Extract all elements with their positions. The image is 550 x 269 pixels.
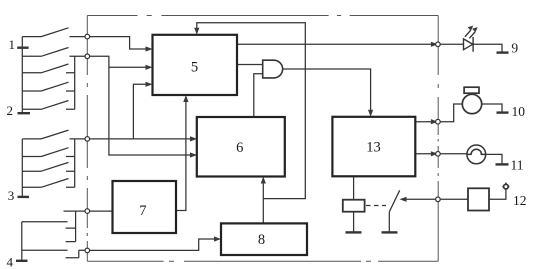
bell HB (circle with inner semicircle) <box>467 145 486 164</box>
connector 4 lower socket <box>66 250 79 257</box>
node R9 <box>436 42 441 47</box>
svg-text:1: 1 <box>8 37 15 52</box>
block 8 <box>221 223 307 255</box>
switch row 3c <box>22 162 74 171</box>
wire node R12 to box 12 <box>440 198 468 200</box>
switch S1 left bus <box>21 37 23 114</box>
svg-text:2: 2 <box>6 103 13 118</box>
switch S3 left bus <box>21 139 23 197</box>
horn HA (circle with cap) <box>462 87 481 114</box>
wire node2 vertical feed <box>90 56 193 155</box>
arrow block5 input3 <box>146 82 153 87</box>
wire node R10 to horn <box>440 104 462 122</box>
terminal 4 bar <box>16 260 28 262</box>
wire block13 to terminal 11 <box>415 153 433 155</box>
terminal 2 bar <box>18 112 31 114</box>
wire branch to block5 input3 <box>133 84 148 139</box>
svg-text:12: 12 <box>513 193 527 208</box>
svg-text:13: 13 <box>366 140 381 156</box>
svg-text:10: 10 <box>512 104 526 119</box>
wire node4 to block7 <box>64 210 113 212</box>
svg-text:6: 6 <box>236 140 243 156</box>
enclosure border bottom (dash-dot) <box>87 260 438 262</box>
svg-text:9: 9 <box>511 41 518 56</box>
terminal 9 bar <box>497 51 509 53</box>
arrow into block 8 <box>214 236 221 241</box>
arrow block6 input1 <box>190 136 197 141</box>
switch row 3b <box>22 148 74 157</box>
terminal 1 bar <box>17 47 28 49</box>
contact ground bar <box>382 231 398 233</box>
feedback wire block8 to block6 and block5 <box>262 181 264 224</box>
coil ground bar <box>346 231 362 233</box>
wire branch to block5 input2 <box>109 66 148 68</box>
node R11 <box>436 152 441 157</box>
arrow at contact (left) <box>400 197 407 202</box>
arrow block6 input2 <box>190 152 197 157</box>
switch row 3d <box>22 179 74 188</box>
terminal 10 bar <box>497 111 509 113</box>
wire node R11 to bell <box>440 153 467 155</box>
wire block13 bottom to relay coil <box>353 176 355 199</box>
LED VL <box>464 37 474 52</box>
relay coil K1 <box>343 200 365 212</box>
switch row 2 <box>22 48 85 57</box>
wire block5 to terminal 9 <box>237 43 434 45</box>
enclosure border top (dash-dot) <box>87 16 438 262</box>
wire block13 to terminal 10 <box>415 121 433 123</box>
block 13 <box>332 117 415 177</box>
wire box to probe terminal <box>489 189 506 199</box>
connector 4 upper prong <box>22 221 68 223</box>
terminal 3 bar <box>18 196 30 198</box>
node L1 <box>85 34 90 39</box>
block 7 output wire to block5 bottom <box>176 99 186 210</box>
arrow into node R11 <box>431 151 438 156</box>
arrow block5 input1 <box>146 46 153 51</box>
box device 12 <box>468 188 489 210</box>
enclosure border left (dash-dot) <box>86 16 88 262</box>
node L3 <box>85 137 90 142</box>
relay contact lead <box>388 212 390 233</box>
node L4 <box>85 209 90 214</box>
arrow block5 input2 <box>146 65 153 70</box>
node R10 <box>436 119 441 124</box>
wire horn to terminal 10 <box>482 104 502 112</box>
probe symbol at 12 <box>504 184 509 189</box>
block 7 <box>113 181 177 233</box>
relay contact blade <box>389 190 399 212</box>
mechanical link (dashed) <box>366 205 386 207</box>
AND gate U1 <box>263 60 283 78</box>
switch row 3a <box>22 130 85 139</box>
connector 4 upper socket <box>66 211 76 242</box>
switch row 1 <box>22 28 85 37</box>
coil ground lead <box>353 212 355 233</box>
arrow into block13 top <box>368 110 373 117</box>
wire node R9 to LED <box>440 43 463 45</box>
switch row 3 <box>22 64 74 73</box>
feedback branch to block5 top <box>197 23 305 199</box>
switch group 3 right bus <box>74 139 76 187</box>
wire AND output to block13 <box>283 69 371 113</box>
arrow into node R10 <box>431 119 438 124</box>
LED emission arrows <box>465 30 475 38</box>
connector 4 left lead <box>21 222 23 261</box>
switch row 5 <box>22 101 74 110</box>
block 6 <box>197 117 285 177</box>
node L2 <box>85 54 90 59</box>
switch group 1-2 right bus <box>74 56 76 109</box>
svg-text:3: 3 <box>8 188 15 203</box>
wire node1 to block5 input1 <box>90 37 149 49</box>
arrow into node R9 <box>431 42 438 47</box>
arrow into block5 bottom <box>183 95 188 102</box>
svg-text:7: 7 <box>139 203 146 219</box>
arrow into block6 bottom <box>261 177 266 184</box>
wire node5 to block8 <box>79 239 217 250</box>
wire LED to terminal 9 <box>473 44 502 52</box>
wire block6 top to AND gate <box>254 74 263 117</box>
switch row 4 <box>22 82 74 91</box>
block 5 <box>153 35 238 95</box>
connector 4 lower prong <box>22 249 68 251</box>
terminal 11 bar <box>496 163 509 165</box>
svg-text:11: 11 <box>511 158 524 173</box>
wire node R12 to contact <box>404 198 438 200</box>
svg-text:4: 4 <box>7 254 14 269</box>
svg-text:5: 5 <box>191 60 198 76</box>
enclosure border right (dash-dot) <box>437 16 439 262</box>
svg-text:8: 8 <box>258 232 265 248</box>
wire node3 to block6 input1 <box>90 138 193 140</box>
wire bell to terminal 11 <box>486 154 502 163</box>
node R12 <box>436 197 441 202</box>
node L5 <box>85 248 90 253</box>
wire block5 to AND gate <box>237 64 263 66</box>
arrow into block5 top <box>194 28 199 35</box>
